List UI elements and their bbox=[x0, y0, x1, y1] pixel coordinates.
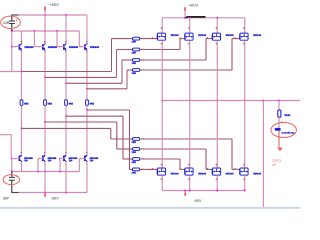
power pin -60V (right bank) bbox=[184, 190, 187, 197]
svg-text:-60V: -60V bbox=[51, 197, 59, 201]
wire M6 source stub bbox=[189, 175, 191, 190]
wire output bus y=100.5 bbox=[162, 100, 300, 102]
label R8 value bbox=[132, 171, 137, 174]
pin mark M1 source bbox=[161, 43, 162, 45]
node junction Q2 emitter rail bbox=[44, 76, 46, 78]
resistor R4 gate (10R) bbox=[133, 69, 140, 72]
window edge strip bbox=[0, 207, 300, 209]
wire emitter column 4 mid bbox=[86, 89, 88, 100]
wire M5 source stub bbox=[161, 175, 163, 190]
wire R2 left lead bbox=[117, 49, 133, 51]
resistor R12 emitter (0R5) bbox=[44, 100, 47, 106]
node junction M1 source on bus bbox=[161, 100, 163, 102]
pin mark M4 drain bbox=[243, 27, 244, 29]
capacitor C2 polarity mark bbox=[16, 176, 17, 177]
svg-text:IRF240: IRF240 bbox=[226, 173, 235, 176]
wire load drop bbox=[278, 101, 280, 110]
wire riser to M8 gate bbox=[232, 168, 240, 170]
wire emitter rail 4 (bottom) bbox=[87, 109, 130, 111]
wire base feed 3b vertical bbox=[59, 159, 61, 172]
annotation ellipse around C1 bbox=[1, 16, 21, 28]
node junction column 3 bottom rail bbox=[65, 115, 67, 117]
label M8 part bbox=[253, 173, 262, 176]
annotation ellipse around C2 bbox=[3, 175, 19, 185]
wire M4 source column bbox=[244, 40, 246, 100]
wire emitter column 3 lower bbox=[65, 105, 67, 116]
wire Q5 collector stub bbox=[21, 163, 23, 172]
pin mark R6 right bbox=[142, 148, 143, 149]
svg-text:IRF240: IRF240 bbox=[253, 34, 262, 37]
node junction Q1 emitter rail bbox=[21, 71, 23, 73]
resistor R7 gate (10R) bbox=[133, 158, 140, 161]
node junction column 2 bottom rail bbox=[44, 121, 46, 123]
power +60V label (left bank) bbox=[50, 2, 60, 7]
pin mark M8 drain bbox=[243, 164, 244, 166]
svg-text:10R: 10R bbox=[132, 141, 137, 144]
node junction M8 source rail end bbox=[244, 190, 246, 192]
svg-text:0R5: 0R5 bbox=[24, 102, 29, 105]
wire emitter column 4 lower bbox=[86, 105, 88, 110]
wire riser to M7 gate bbox=[206, 168, 212, 170]
transistor Q2 bbox=[42, 43, 45, 50]
wire gate riser M8 (bottom) bbox=[231, 139, 233, 169]
svg-text:-60V: -60V bbox=[194, 199, 202, 203]
transistor Q8 bbox=[84, 155, 87, 162]
pin mark Q4 collector bbox=[86, 41, 87, 43]
annotation ellipse around F1 bbox=[271, 123, 296, 138]
wire staircase riser 1 (bottom) bbox=[110, 128, 112, 139]
pin mark Q1 collector bbox=[21, 41, 22, 43]
label Q7 part line1 bbox=[69, 157, 78, 160]
pin mark Q1 emitter bbox=[21, 51, 22, 53]
wire rail1 top-left y=15 bbox=[12, 14, 87, 16]
wire M2 drain stub bbox=[189, 18, 191, 33]
pin mark R8 right bbox=[142, 169, 143, 170]
node junction off-page vertical on bus bbox=[262, 100, 264, 102]
wire Q6 collector stub bbox=[44, 163, 46, 193]
wire emitter column 2 to Q2b bbox=[44, 122, 46, 154]
wire M8 source stub bbox=[244, 175, 246, 190]
label R3 value bbox=[132, 62, 137, 65]
resistor R1 gate (10R) bbox=[133, 37, 140, 40]
resistor R5 gate (10R) bbox=[133, 138, 140, 141]
inductor L1 bbox=[278, 110, 281, 117]
pin mark M6 gate bbox=[179, 168, 180, 169]
wire staircase riser 2 (bottom) bbox=[116, 122, 118, 149]
svg-text:0R5: 0R5 bbox=[48, 102, 53, 105]
wire M3 source column bbox=[216, 40, 218, 100]
svg-text:33P: 33P bbox=[3, 21, 10, 25]
wire M8 drain column bbox=[244, 101, 246, 168]
wire R2 row to riser bbox=[140, 49, 180, 51]
resistor R3 gate (10R) bbox=[133, 59, 140, 62]
label R11 value bbox=[24, 102, 29, 105]
resistor R8 gate (10R) bbox=[133, 168, 140, 171]
pin mark M6 source bbox=[188, 178, 189, 180]
label Q5 part line2 bbox=[24, 160, 28, 163]
wire base feed 4 (rail2 corner) bbox=[78, 31, 80, 47]
label M4 part bbox=[253, 34, 262, 37]
wire gate riser M2 (top) bbox=[179, 39, 181, 50]
label Q7 part line2 bbox=[69, 160, 73, 163]
wire Q2 collector stub bbox=[44, 31, 46, 43]
pin mark Q7 emitter top bbox=[65, 152, 66, 154]
node junction +60V on rail2 bbox=[44, 30, 46, 32]
capacitor C2 plates bbox=[9, 177, 15, 180]
wire rail3 bottom-left y=171.5 bbox=[12, 171, 80, 173]
capacitor C2 lead top bbox=[11, 172, 13, 177]
pin mark M4 gate bbox=[234, 37, 235, 38]
label R4 value bbox=[132, 72, 137, 75]
pin mark M7 gate bbox=[207, 168, 208, 169]
node junction column 1 bottom rail bbox=[21, 127, 23, 129]
pin mark Q8 emitter top bbox=[86, 152, 87, 154]
svg-text:IRF240: IRF240 bbox=[198, 173, 207, 176]
wire M7 source stub bbox=[216, 175, 218, 190]
transistor M7 (bottom MOSFET) bbox=[212, 168, 220, 175]
wire emitter column 3 to Q3b bbox=[65, 116, 67, 153]
wire emitter column 1 mid bbox=[21, 72, 23, 100]
node junction cap column on rail2 bbox=[11, 30, 13, 32]
wire +60V feed to rails, x=45 bbox=[44, 11, 46, 33]
pin mark Q3 emitter bbox=[65, 51, 66, 53]
wire M7 drain column bbox=[216, 101, 218, 168]
power pin +60V (left bank) bbox=[44, 6, 46, 10]
pin mark M8 gate bbox=[234, 168, 235, 169]
label Q8 part line2 bbox=[90, 160, 94, 163]
pin mark R5 right bbox=[142, 138, 143, 139]
svg-text:TIP: TIP bbox=[48, 160, 52, 163]
pin mark Q3 collector bbox=[65, 41, 66, 43]
wire base feed 1 vertical (cap column down) bbox=[11, 31, 13, 72]
pin mark M2 drain bbox=[188, 27, 189, 29]
pin mark M4 source bbox=[243, 43, 244, 45]
label M7 part bbox=[226, 173, 235, 176]
wire Q2 base bbox=[34, 46, 43, 48]
resistor R6 gate (10R) bbox=[133, 148, 140, 151]
node junction column 4 bottom rail bbox=[86, 109, 88, 111]
wire base feed 1b vertical (cap column up) bbox=[11, 159, 13, 172]
pin mark R4 right bbox=[142, 69, 143, 70]
wire Q8 collector stub (rail4 corner) bbox=[86, 163, 88, 193]
transistor M1 (top MOSFET) bbox=[157, 33, 165, 40]
wire staircase riser 4 (bottom) bbox=[129, 110, 131, 169]
svg-text:IRF240: IRF240 bbox=[253, 173, 262, 176]
pin mark Q6 base bbox=[38, 158, 40, 159]
wire riser to M6 gate bbox=[180, 168, 185, 170]
pin mark M7 source bbox=[216, 178, 217, 180]
svg-text:IRF240: IRF240 bbox=[198, 34, 207, 37]
svg-text:10R: 10R bbox=[132, 171, 137, 174]
power +60V label (right bank) bbox=[189, 2, 199, 7]
svg-text:33P: 33P bbox=[3, 196, 10, 200]
node junction M2 drain on rail bbox=[189, 17, 191, 19]
resistor R14 emitter (0R5) bbox=[86, 100, 89, 106]
wire base feed 2b vertical bbox=[37, 159, 39, 172]
wire L1 to fuse bbox=[278, 117, 280, 128]
wire riser to M2 gate bbox=[180, 38, 185, 40]
pin mark M1 drain bbox=[161, 27, 162, 29]
wire R1 to M1 gate bbox=[140, 38, 157, 40]
svg-text:2SB649: 2SB649 bbox=[48, 46, 58, 49]
pin mark Q4 emitter bbox=[86, 51, 87, 53]
label Q1 part number bbox=[24, 46, 34, 49]
svg-text:TIP: TIP bbox=[69, 160, 73, 163]
transistor Q6 bbox=[42, 155, 45, 162]
pin mark Q5 emitter top bbox=[21, 152, 22, 154]
transistor M6 (bottom MOSFET) bbox=[185, 168, 193, 175]
wire gate riser M7 (bottom) bbox=[205, 149, 207, 169]
node junction base feed 1 / Q1 base bbox=[11, 46, 13, 48]
wire R7 left lead bbox=[123, 158, 133, 160]
wire gate riser M6 (bottom) bbox=[179, 159, 181, 169]
wire emitter rail 3 (bottom) bbox=[66, 115, 123, 117]
wire Q3 collector stub (to rail1) bbox=[65, 15, 67, 43]
label R1 value bbox=[132, 41, 137, 44]
pin mark M2 gate bbox=[179, 37, 180, 38]
wire staircase riser 1 (top) bbox=[111, 39, 113, 72]
wire base feed 3 vertical bbox=[56, 31, 58, 47]
svg-text:10R: 10R bbox=[132, 41, 137, 44]
node junction bf2 on rail3 bbox=[37, 171, 39, 173]
pin mark M5 gate bbox=[152, 168, 153, 169]
svg-text:+60V: +60V bbox=[50, 2, 60, 7]
node junction load corner on bus bbox=[278, 100, 280, 102]
wire R4 left lead bbox=[127, 69, 133, 71]
label R13 value bbox=[69, 102, 74, 105]
transistor M3 (top MOSFET) bbox=[212, 33, 220, 40]
wire staircase riser 3 (top) bbox=[121, 60, 123, 83]
wire Q6 base bbox=[38, 158, 43, 160]
wire R3 row to riser bbox=[140, 59, 206, 61]
wire emitter column 2 mid bbox=[44, 77, 46, 99]
wire emitter rail 4 (top) bbox=[87, 88, 127, 90]
wire emitter column 3 mid bbox=[65, 83, 67, 100]
svg-text:10R: 10R bbox=[132, 72, 137, 75]
pin mark Q1 base bbox=[15, 46, 16, 47]
node junction M3 source on bus bbox=[216, 100, 218, 102]
svg-text:TIP: TIP bbox=[90, 160, 94, 163]
wire base feed 4b (rail3 corner) bbox=[78, 159, 80, 172]
wire riser to M3 gate bbox=[206, 38, 212, 40]
svg-text:0R5: 0R5 bbox=[90, 102, 95, 105]
label R12 value bbox=[48, 102, 53, 105]
power -60V label (left bank) bbox=[51, 197, 59, 201]
pin mark Q2 emitter bbox=[44, 51, 45, 53]
svg-text:2SB649: 2SB649 bbox=[24, 46, 34, 49]
wire Q7 base bbox=[60, 158, 64, 160]
pin mark R7 right bbox=[142, 158, 143, 159]
wire R4 row to riser bbox=[140, 69, 232, 71]
wire emitter column 2 lower bbox=[44, 105, 46, 122]
wire emitter rail 2 (bottom) bbox=[45, 121, 117, 123]
wire top rail (right bank) y=17.8 bbox=[162, 17, 245, 19]
pin mark M1 gate bbox=[152, 37, 153, 38]
node junction Q3 emitter rail bbox=[65, 82, 67, 84]
node junction base feed 2 on rail2 bbox=[33, 30, 35, 32]
pin mark M6 drain bbox=[188, 164, 189, 166]
node junction M7 source on rail bbox=[216, 190, 218, 192]
wire fuse to output arrow bbox=[278, 131, 280, 148]
pin mark Q8 base bbox=[80, 158, 82, 159]
transistor Q4 bbox=[84, 43, 87, 50]
label Q4 part number bbox=[90, 46, 100, 49]
wire emitter rail 3 (top) bbox=[66, 82, 122, 84]
wire M5 drain column bbox=[161, 101, 163, 168]
node junction Q3 collector on rail1 bbox=[65, 14, 67, 16]
pin mark Q8 collector bbox=[86, 163, 87, 165]
wire bottom rail (right bank) y=190.5 bbox=[162, 190, 245, 192]
capacitor C1 lead bottom bbox=[11, 24, 13, 31]
wire Q7 collector stub bbox=[65, 163, 67, 193]
wire Q2 emitter stub bbox=[44, 51, 46, 78]
svg-text:10R: 10R bbox=[132, 62, 137, 65]
pin mark M3 gate bbox=[207, 37, 208, 38]
pin mark Q4 base bbox=[80, 46, 82, 47]
pin mark Q5 base bbox=[15, 158, 16, 159]
label F1 bbox=[282, 131, 296, 134]
wire R8 to M5 gate bbox=[140, 168, 157, 170]
svg-text:10R: 10R bbox=[132, 52, 137, 55]
wire Q4 collector stub (rail1 corner) bbox=[86, 15, 88, 43]
node junction cap column on rail3 bbox=[11, 170, 13, 172]
wire R7 row to riser bbox=[140, 158, 180, 160]
label Q2 part number bbox=[48, 46, 58, 49]
wire Q8 base bbox=[79, 158, 85, 160]
pin mark M3 source bbox=[216, 43, 217, 45]
wire emitter rail 1 (top) bbox=[22, 71, 112, 73]
wire R5 row to riser bbox=[140, 138, 232, 140]
capacitor C2 value 33P bbox=[3, 196, 10, 200]
transistor M5 (bottom MOSFET) bbox=[157, 168, 165, 175]
wire Q1 collector stub bbox=[21, 31, 23, 43]
wire gate riser M4 (top) bbox=[231, 39, 233, 70]
svg-text:IRF240: IRF240 bbox=[171, 173, 180, 176]
node junction +60V on rail1 bbox=[44, 14, 46, 16]
pin mark Q2 collector bbox=[44, 41, 45, 43]
wire +60V feed (right) bbox=[184, 11, 186, 18]
capacitor C2 lead bottom bbox=[11, 181, 13, 193]
capacitor C1 value 33P bbox=[3, 21, 10, 25]
capacitor C1 polarity mark bbox=[16, 19, 17, 20]
fuse F1 bbox=[275, 128, 281, 131]
power -60V label (right bank) bbox=[194, 199, 202, 203]
label Q5 part line1 bbox=[24, 157, 33, 160]
wire emitter rail 2 (top) bbox=[45, 76, 117, 78]
transistor Q3 bbox=[63, 43, 66, 50]
resistor R11 emitter (0R5) bbox=[20, 100, 23, 106]
wire Q5 base bbox=[12, 158, 20, 160]
label R2 value bbox=[132, 52, 137, 55]
wire rail1 black start segment bbox=[11, 14, 18, 16]
node junction M2 source on bus bbox=[189, 100, 191, 102]
pin mark M3 drain bbox=[216, 27, 217, 29]
node junction base feed 1b / Q5 base bbox=[11, 158, 13, 160]
label M3 part bbox=[226, 34, 235, 37]
label R7 value bbox=[132, 161, 137, 164]
transistor Q1 bbox=[19, 43, 22, 50]
pin mark M8 source bbox=[243, 178, 244, 180]
node junction M4 source on bus bbox=[244, 100, 246, 102]
pin mark Q5 collector bbox=[21, 163, 22, 165]
wire R3 left lead bbox=[122, 59, 133, 61]
label M1 part bbox=[171, 34, 180, 37]
wire R8 left lead bbox=[130, 168, 133, 170]
wire M1 drain stub bbox=[161, 18, 163, 33]
wire left edge stub to base feed 1 bbox=[0, 71, 22, 73]
svg-text:+60V: +60V bbox=[189, 2, 199, 7]
wire R6 row to riser bbox=[140, 148, 206, 150]
label Q6 part line1 bbox=[48, 157, 57, 160]
power pin -60V (left bank) bbox=[44, 193, 47, 198]
capacitor C1 lead top bbox=[11, 15, 13, 21]
pin mark M7 drain bbox=[216, 164, 217, 166]
label Q3 part number bbox=[69, 46, 79, 49]
wire Q4 base bbox=[79, 46, 85, 48]
node junction base feed 3 on rail2 bbox=[56, 30, 58, 32]
wire staircase riser 3 (bottom) bbox=[122, 116, 124, 159]
svg-text:to avoid osc: to avoid osc bbox=[282, 131, 296, 134]
wire M3 drain stub bbox=[216, 18, 218, 33]
wire R5 left lead bbox=[111, 138, 133, 140]
svg-text:TIP: TIP bbox=[24, 160, 28, 163]
pin mark L1 bottom bbox=[281, 122, 282, 123]
wire Q4 emitter stub bbox=[86, 51, 88, 90]
pin mark R3 right bbox=[142, 59, 143, 60]
wire emitter column 1 lower bbox=[21, 105, 23, 128]
node junction M3 drain on rail bbox=[216, 17, 218, 19]
pin mark Q3 base bbox=[59, 46, 61, 47]
pin mark Q2 base bbox=[38, 46, 40, 47]
transistor Q7 bbox=[63, 155, 66, 162]
node junction col2 on rail3 bbox=[44, 171, 46, 173]
transistor Q5 bbox=[19, 155, 22, 162]
wire M4 drain stub bbox=[244, 18, 246, 33]
wire gate riser M3 (top) bbox=[205, 39, 207, 60]
wire R1 left lead bbox=[112, 38, 133, 40]
transistor M8 (bottom MOSFET) bbox=[240, 168, 248, 175]
wire R6 left lead bbox=[117, 148, 133, 150]
wire M2 source column bbox=[189, 40, 191, 100]
wire M1 source column bbox=[161, 40, 163, 100]
wire rail2 top-left y=31 bbox=[12, 30, 80, 32]
node junction bf3 on rail3 bbox=[59, 171, 61, 173]
pin mark M5 source bbox=[161, 178, 162, 180]
node junction -60V on rail4 bbox=[44, 192, 46, 194]
node junction +60V on right rail bbox=[184, 17, 186, 19]
wire M6 drain column bbox=[189, 101, 191, 168]
transistor M4 (top MOSFET) bbox=[240, 33, 248, 40]
label M5 part bbox=[171, 173, 180, 176]
wire staircase riser 2 (top) bbox=[116, 50, 118, 78]
wire staircase riser 4 (top) bbox=[126, 70, 128, 89]
svg-text:IRF240: IRF240 bbox=[226, 34, 235, 37]
wire left edge line to Q5 base node bbox=[0, 135, 11, 159]
wire emitter column 4 to Q4b bbox=[86, 110, 88, 154]
label M6 part bbox=[198, 173, 207, 176]
wire riser to M4 gate bbox=[232, 38, 240, 40]
label L1 value bbox=[284, 114, 290, 117]
label output note line1 bbox=[272, 159, 281, 163]
power pin +60V (right bank) bbox=[184, 7, 186, 11]
svg-text:2SB649: 2SB649 bbox=[90, 46, 100, 49]
pin mark Q7 collector bbox=[65, 163, 66, 165]
svg-text:2SB649: 2SB649 bbox=[69, 46, 79, 49]
label Q6 part line2 bbox=[48, 160, 52, 163]
wire Q3 emitter stub bbox=[65, 51, 67, 84]
output port arrow bbox=[277, 148, 283, 152]
pin mark Q6 emitter top bbox=[44, 152, 45, 154]
